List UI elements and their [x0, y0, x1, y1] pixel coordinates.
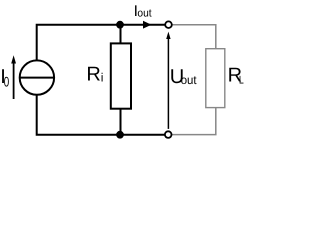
svg-text:out: out	[181, 73, 197, 87]
current source I0	[20, 60, 54, 94]
node: top junction	[116, 21, 124, 29]
svg-text:out: out	[137, 8, 151, 20]
node: bottom junction	[116, 131, 124, 139]
wire: Ri bottom stem	[120, 109, 122, 135]
arrow: Uout voltage	[166, 32, 170, 129]
grey wire: RL to bottom terminal	[172, 108, 216, 135]
terminal: top output node	[165, 21, 172, 28]
wire: left + top run	[37, 25, 166, 61]
label I0	[0, 66, 9, 90]
wire: Ri top stem	[120, 25, 122, 44]
svg-text:0: 0	[4, 74, 10, 90]
svg-text:L: L	[239, 75, 244, 87]
label Iout	[134, 3, 152, 20]
grey wire: top to RL	[172, 25, 216, 49]
label Ri	[86, 64, 103, 86]
arrow: I0 direction	[11, 55, 16, 99]
svg-text:i: i	[101, 71, 104, 85]
wire: left lower + bottom run	[37, 94, 165, 134]
terminal: bottom output node	[165, 131, 172, 138]
arrow: Iout on top wire	[143, 21, 151, 29]
svg-text:R: R	[86, 64, 100, 86]
resistor RL (load)	[206, 49, 225, 108]
label Uout	[170, 66, 197, 88]
label RL	[228, 65, 244, 87]
resistor Ri	[111, 43, 131, 108]
